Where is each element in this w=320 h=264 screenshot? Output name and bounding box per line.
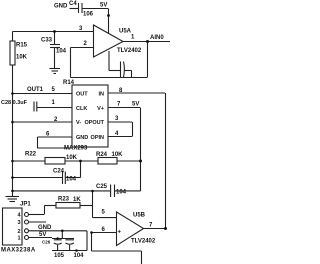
svg-text:R23: R23 [58,197,70,203]
svg-text:C24: C24 [53,169,65,175]
svg-text:U5B: U5B [133,213,146,219]
svg-text:R24: R24 [96,152,108,158]
svg-text:5V: 5V [100,3,107,9]
svg-text:+: + [118,230,122,236]
svg-text:5V: 5V [39,232,46,238]
svg-text:OUT: OUT [76,92,88,98]
svg-text:1: 1 [17,236,20,242]
svg-text:2: 2 [17,229,20,235]
svg-text:GND: GND [76,135,88,141]
svg-text:C28 0.3uF: C28 0.3uF [1,100,28,106]
svg-text:OPIN: OPIN [91,135,104,141]
svg-text:AIN0: AIN0 [150,35,164,41]
svg-text:U5A: U5A [119,29,132,35]
svg-text:106: 106 [83,12,94,18]
svg-text:GND: GND [38,225,52,231]
svg-text:C26: C26 [42,240,51,245]
svg-text:MAX3238A: MAX3238A [1,248,36,254]
svg-text:3: 3 [17,220,20,226]
svg-text:R22: R22 [25,152,37,158]
svg-text:105: 105 [54,253,65,259]
svg-text:CLK: CLK [76,106,87,112]
svg-text:GND: GND [54,4,68,10]
svg-text:OUT1: OUT1 [27,87,44,93]
svg-text:IN: IN [99,92,105,98]
svg-text:104: 104 [116,190,127,196]
svg-text:C33: C33 [41,38,53,44]
svg-text:V-: V- [76,120,81,126]
svg-text:MAX293: MAX293 [64,146,88,152]
svg-text:TLV2402: TLV2402 [117,48,142,54]
svg-text:V+: V+ [97,106,104,112]
svg-text:10K: 10K [112,152,124,158]
svg-text:C4: C4 [69,1,77,7]
svg-text:OPOUT: OPOUT [84,120,104,126]
svg-text:10K: 10K [66,155,78,161]
svg-text:104: 104 [74,253,85,259]
svg-text:1K: 1K [73,197,81,203]
svg-text:R14: R14 [63,80,75,86]
svg-text:10K: 10K [16,55,28,61]
svg-text:5V: 5V [132,102,139,108]
svg-text:104: 104 [56,49,67,55]
svg-text:C25: C25 [96,184,108,190]
svg-text:TLV2402: TLV2402 [131,239,156,245]
svg-text:R15: R15 [16,43,28,49]
svg-text:104: 104 [66,177,77,183]
svg-text:JP1: JP1 [20,202,31,208]
